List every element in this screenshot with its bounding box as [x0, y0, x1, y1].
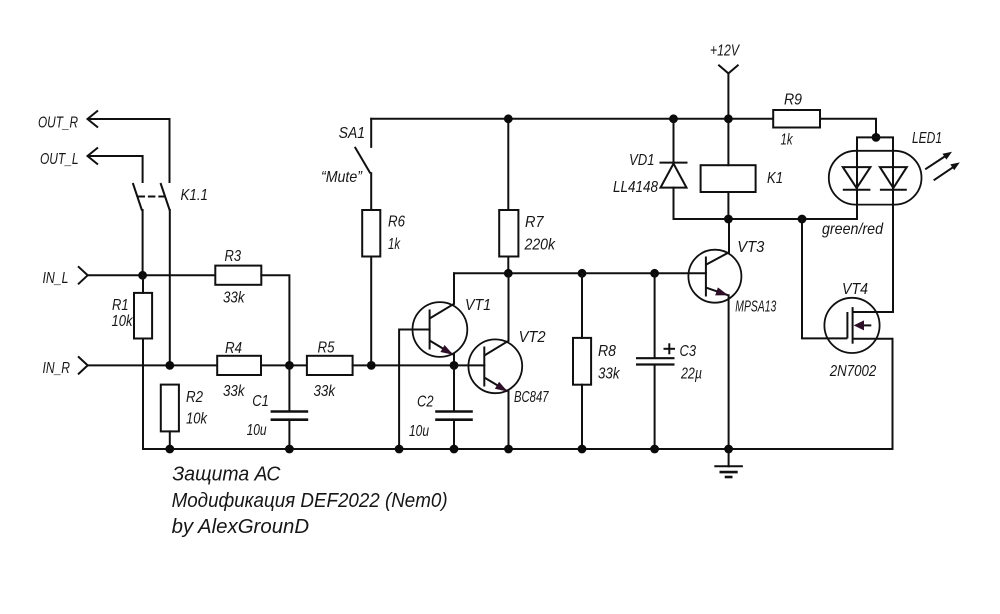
svg-text:10k: 10k	[112, 313, 134, 330]
node junction	[724, 445, 733, 454]
node junction	[165, 361, 174, 370]
transistor VT1	[413, 297, 492, 357]
wire	[89, 156, 143, 182]
wire	[820, 119, 876, 138]
wire K1 bottom rail	[674, 218, 858, 220]
svg-text:K1.1: K1.1	[181, 187, 209, 204]
node junction	[724, 114, 733, 123]
svg-text:R7: R7	[525, 214, 544, 231]
svg-text:LED1: LED1	[912, 130, 942, 147]
resistor R6	[362, 210, 405, 257]
wire	[508, 273, 510, 341]
node junction	[669, 114, 678, 123]
switch SA1 "Mute"	[321, 119, 371, 186]
relay coil K1	[701, 119, 783, 219]
wire	[654, 365, 656, 449]
transistor VT4 2N7002	[824, 281, 892, 380]
wire	[261, 364, 307, 366]
wire top rail	[371, 118, 773, 120]
wire	[288, 420, 290, 449]
svg-text:Защита АС: Защита АС	[172, 464, 281, 486]
svg-text:R9: R9	[784, 92, 802, 109]
wire	[654, 273, 656, 357]
svg-text:22µ: 22µ	[680, 366, 702, 383]
diode VD1 LL4148	[613, 119, 688, 219]
node IN_L	[43, 266, 88, 287]
node OUT_L	[40, 148, 98, 169]
svg-text:10k: 10k	[186, 411, 208, 428]
node junction	[578, 445, 587, 454]
wire	[169, 431, 171, 449]
wire	[453, 354, 455, 365]
wire	[89, 364, 218, 366]
transistor VT2	[468, 329, 549, 406]
svg-text:33k: 33k	[598, 366, 620, 383]
svg-text:BC847: BC847	[514, 389, 549, 406]
capacitor C3	[636, 343, 702, 383]
relay contact K1.1	[133, 183, 208, 211]
svg-text:VT4: VT4	[842, 281, 868, 298]
svg-text:10u: 10u	[409, 423, 429, 440]
node junction	[395, 445, 404, 454]
svg-text:VD1: VD1	[629, 152, 655, 169]
svg-text:1k: 1k	[781, 132, 794, 149]
ground	[714, 449, 743, 477]
wire	[892, 339, 894, 449]
wire	[453, 365, 455, 411]
wire	[857, 137, 876, 219]
wire gate	[802, 219, 846, 338]
svg-text:R8: R8	[598, 343, 616, 360]
wire	[508, 391, 510, 449]
wire	[261, 275, 289, 365]
wire	[89, 119, 170, 182]
node junction	[798, 215, 807, 224]
node junction	[450, 445, 459, 454]
capacitor C1	[247, 393, 309, 439]
node junction	[285, 445, 294, 454]
wire	[353, 364, 485, 366]
wire	[89, 274, 216, 276]
node junction	[504, 114, 513, 123]
wire	[142, 210, 144, 275]
wire bottom rail	[143, 448, 892, 450]
node junction	[285, 361, 294, 370]
node junction	[450, 361, 459, 370]
svg-text:VT2: VT2	[519, 329, 546, 346]
svg-text:LL4148: LL4148	[613, 179, 658, 196]
svg-text:R4: R4	[225, 340, 242, 357]
wire	[370, 257, 372, 366]
annotation title	[172, 464, 448, 539]
LED LED1 dual green/red	[829, 130, 942, 205]
svg-text:R3: R3	[225, 248, 242, 265]
node junction	[650, 269, 659, 278]
wire	[142, 275, 144, 293]
resistor R9	[773, 92, 820, 149]
wire	[728, 295, 730, 449]
wire	[581, 273, 583, 338]
svg-text:C2: C2	[417, 394, 434, 411]
svg-text:OUT_R: OUT_R	[38, 115, 78, 132]
node junction	[578, 269, 587, 278]
wire	[453, 420, 455, 449]
svg-text:green/red: green/red	[822, 221, 884, 238]
svg-text:C1: C1	[252, 393, 268, 410]
svg-text:R5: R5	[318, 340, 335, 357]
LED light arrows	[925, 152, 960, 181]
svg-text:Модификация DEF2022 (Nem0): Модификация DEF2022 (Nem0)	[172, 490, 448, 512]
resistor R2	[161, 385, 208, 432]
node junction	[650, 445, 659, 454]
capacitor C2	[409, 394, 473, 441]
wire collector rail	[454, 272, 706, 274]
svg-text:R2: R2	[186, 389, 203, 406]
transistor VT3	[688, 239, 776, 316]
svg-text:VT1: VT1	[465, 297, 491, 314]
node junction	[138, 271, 147, 280]
svg-text:R6: R6	[388, 214, 405, 231]
node IN_R	[43, 356, 88, 377]
svg-text:+12V: +12V	[710, 43, 740, 60]
svg-text:33k: 33k	[223, 290, 245, 307]
wire	[507, 119, 509, 210]
svg-text:10u: 10u	[247, 422, 267, 439]
wire	[169, 210, 171, 365]
svg-text:OUT_L: OUT_L	[40, 151, 79, 168]
wire base VT1	[399, 330, 430, 450]
node junction	[872, 133, 881, 142]
wire	[507, 257, 509, 274]
wire	[288, 365, 290, 411]
node junction	[504, 445, 513, 454]
svg-text:IN_R: IN_R	[43, 360, 71, 377]
resistor R4	[217, 340, 261, 400]
svg-text:1k: 1k	[388, 236, 401, 253]
svg-text:SA1: SA1	[339, 125, 366, 142]
node junction	[724, 215, 733, 224]
wire	[142, 339, 144, 450]
svg-text:220k: 220k	[524, 237, 556, 254]
node OUT_R	[38, 111, 98, 132]
svg-text:IN_L: IN_L	[43, 270, 69, 287]
wire	[728, 219, 730, 252]
svg-text:C3: C3	[680, 343, 697, 360]
node junction	[367, 361, 376, 370]
svg-text:VT3: VT3	[737, 239, 764, 256]
svg-text:R1: R1	[112, 297, 129, 314]
node junction	[165, 445, 174, 454]
power +12V	[710, 43, 740, 119]
svg-text:33k: 33k	[314, 383, 336, 400]
node junction	[504, 269, 513, 278]
svg-text:K1: K1	[767, 170, 783, 187]
svg-text:MPSA13: MPSA13	[735, 299, 776, 316]
svg-text:“Mute”: “Mute”	[321, 169, 363, 186]
resistor R8	[573, 338, 620, 385]
resistor R1	[112, 293, 153, 339]
resistor R7	[499, 210, 556, 257]
svg-text:2N7002: 2N7002	[829, 363, 876, 380]
svg-text:by AlexGrounD: by AlexGrounD	[172, 516, 310, 538]
wire	[876, 137, 893, 312]
wire	[370, 173, 372, 210]
wire	[581, 385, 583, 449]
resistor R3	[215, 248, 261, 307]
wire	[453, 273, 455, 304]
resistor R5	[307, 340, 353, 401]
svg-text:33k: 33k	[223, 383, 245, 400]
